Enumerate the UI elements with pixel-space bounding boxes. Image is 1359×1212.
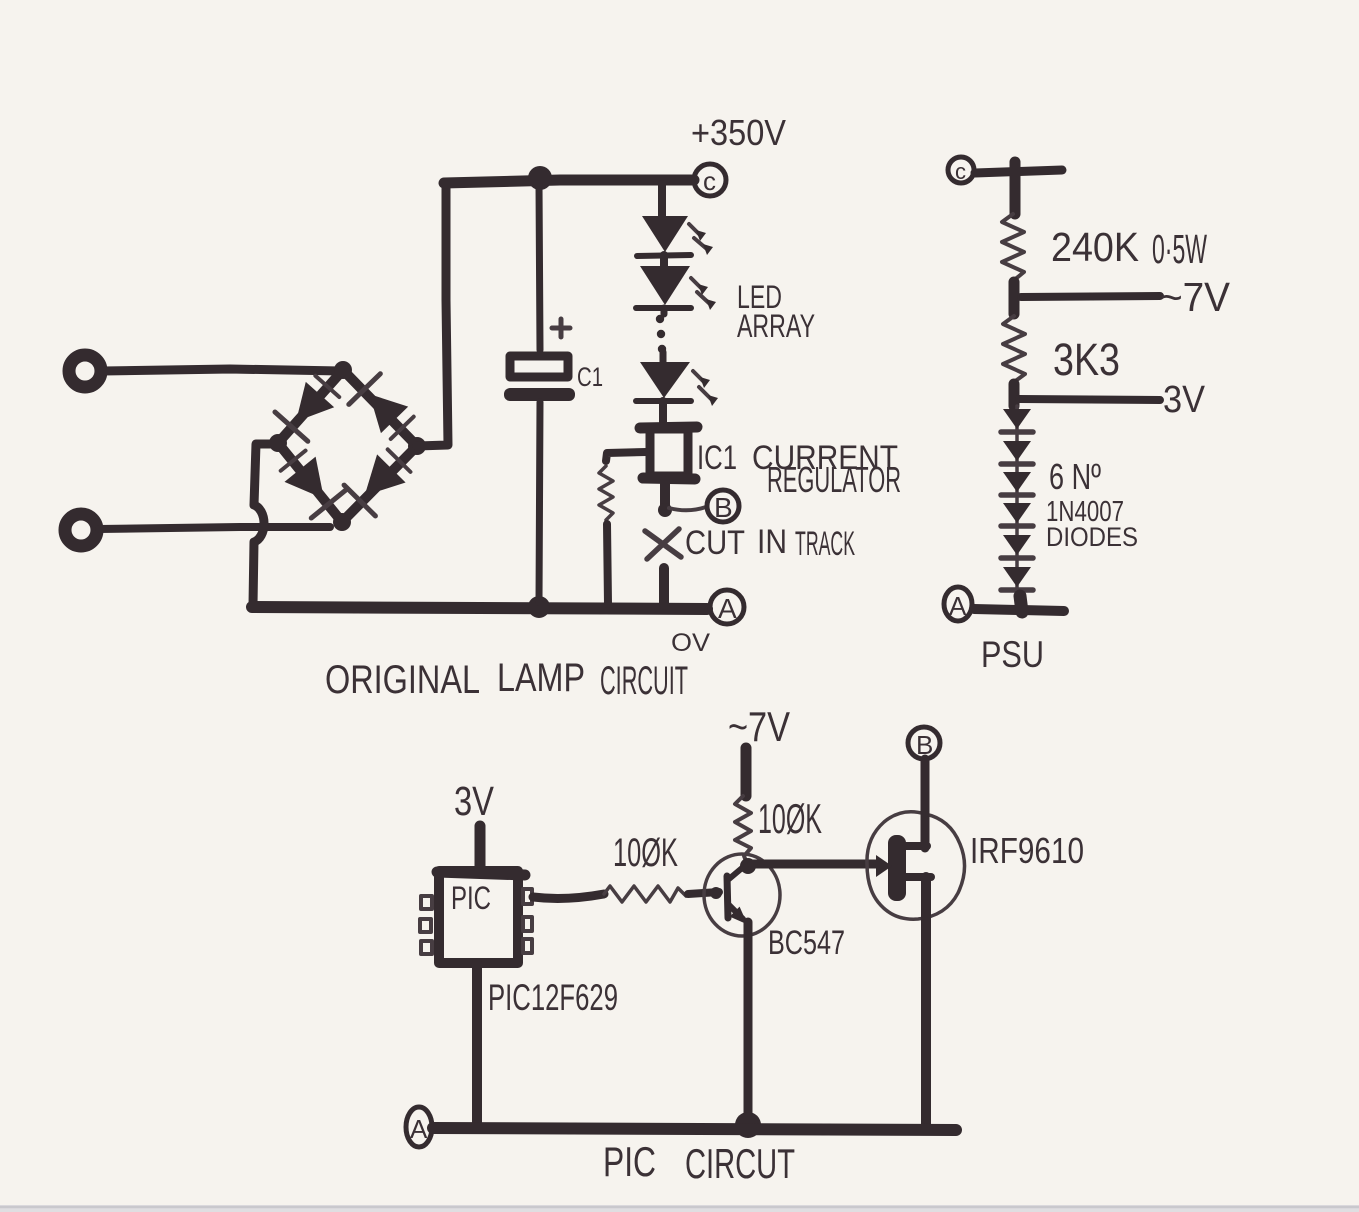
- label C1: [577, 362, 603, 392]
- polarity plus sign of C1: [552, 319, 570, 337]
- scan edge shadow: [0, 1205, 1359, 1212]
- svg-text:DIODES: DIODES: [1046, 522, 1138, 552]
- regulator IC1: [640, 427, 697, 479]
- node B lamp circuit: [707, 490, 739, 523]
- label IC1: [697, 439, 737, 477]
- svg-text:IRF9610: IRF9610: [970, 830, 1084, 871]
- svg-text:IN: IN: [757, 523, 787, 561]
- resistor R adj beside IC1: [599, 466, 613, 520]
- svg-text:+350V: +350V: [691, 112, 786, 153]
- LED D5: [637, 216, 713, 256]
- node C PSU: [948, 157, 974, 184]
- resistor 100K base: [604, 886, 686, 902]
- wire resistor to 0V rail: [607, 524, 608, 604]
- svg-text:10ØK: 10ØK: [758, 795, 822, 842]
- wire LED D5 to D6: [660, 255, 668, 267]
- svg-text:0·5W: 0·5W: [1152, 226, 1207, 272]
- transistor Q2 IRF9610: [867, 812, 965, 919]
- pin left 2: [420, 919, 431, 932]
- wire stub above LED D7: [660, 352, 667, 362]
- resistor 100K collector: [735, 796, 751, 861]
- pin right 1: [523, 889, 532, 904]
- svg-text:c: c: [955, 159, 966, 184]
- IC U1 PIC12F629: [420, 871, 532, 963]
- svg-text:B: B: [714, 492, 733, 523]
- bridge diode D4 bottom-right: [344, 445, 415, 516]
- label 100K collector: [758, 795, 822, 842]
- node A PIC: [406, 1107, 432, 1147]
- caption PIC CIRCUT: [603, 1138, 795, 1187]
- bridge rectifier BR1: [269, 361, 426, 531]
- svg-text:PSU: PSU: [981, 634, 1044, 675]
- wire resistor to Q1 base: [688, 887, 722, 899]
- junction bottom rail to C1: [528, 596, 550, 618]
- wire stub to node B: [669, 507, 706, 510]
- junction top rail to C1: [528, 166, 552, 190]
- diode chain 6x 1N4007: [1001, 406, 1033, 600]
- svg-text:10ØK: 10ØK: [613, 831, 678, 875]
- label IRF9610: [970, 830, 1084, 871]
- diode D11: [1001, 503, 1033, 526]
- node C lamp circuit: [694, 164, 726, 196]
- svg-text:PIC12F629: PIC12F629: [488, 977, 618, 1018]
- diode D12: [1001, 535, 1033, 558]
- label ~7V: [1160, 274, 1231, 320]
- wire PIC to base resistor: [533, 894, 604, 898]
- resistor 240K 0.5W: [1002, 214, 1024, 281]
- pin left 1: [421, 896, 432, 909]
- svg-text:~7V: ~7V: [1160, 274, 1231, 320]
- svg-text:3K3: 3K3: [1053, 334, 1120, 385]
- capacitor C1: [504, 356, 575, 401]
- wire J2 to bridge bottom corner: [99, 527, 330, 529]
- svg-text:240K: 240K: [1051, 224, 1139, 270]
- svg-text:A: A: [718, 593, 737, 624]
- label 0V: [671, 629, 710, 657]
- wire 7V stub: [741, 748, 752, 796]
- label PIC12F629: [488, 977, 618, 1018]
- svg-text:REGULATOR: REGULATOR: [767, 459, 901, 500]
- wire PIC to 0V rail: [472, 963, 482, 1127]
- wire IC1 output stub: [658, 481, 672, 517]
- svg-text:3V: 3V: [1163, 379, 1206, 421]
- svg-text:OV: OV: [671, 629, 710, 657]
- svg-text:C1: C1: [577, 362, 603, 392]
- diode D10: [1001, 472, 1033, 495]
- terminal J1 AC input top: [69, 355, 101, 387]
- wire 3V tap: [1019, 399, 1160, 400]
- label 100K base: [613, 831, 678, 875]
- svg-text:BC547: BC547: [768, 924, 845, 962]
- wire PSU bottom bar: [974, 596, 1064, 612]
- node B PIC: [908, 727, 940, 760]
- label CURRENT REGULATOR: [752, 439, 901, 500]
- svg-text:LAMP: LAMP: [497, 656, 585, 700]
- svg-text:IC1: IC1: [697, 439, 737, 477]
- bridge diode D3 bottom-left: [276, 447, 345, 518]
- label ~7V PIC supply: [728, 703, 790, 750]
- svg-text:3V: 3V: [454, 778, 495, 824]
- wire node B to Q2 drain: [921, 759, 930, 848]
- pin left 3: [421, 941, 432, 954]
- wire J1 to bridge top corner: [103, 369, 341, 371]
- svg-text:A: A: [410, 1114, 428, 1144]
- junction emitter to rail: [735, 1112, 761, 1138]
- svg-text:PIC: PIC: [451, 880, 491, 916]
- label 3V: [1163, 379, 1206, 421]
- wire +350V top rail: [444, 180, 694, 183]
- svg-text:TRACK: TRACK: [795, 525, 855, 563]
- wire 0V bottom rail PIC: [433, 1128, 956, 1130]
- bridge diode D2 top-right: [349, 374, 418, 443]
- svg-text:PIC: PIC: [603, 1138, 656, 1185]
- label 6 No 1N4007 DIODES: [1046, 456, 1138, 552]
- label 240K 0.5W: [1051, 224, 1207, 272]
- wire rail to LED string: [658, 184, 666, 218]
- wire LED D7 to IC1: [659, 401, 667, 424]
- wire Q2 source to 0V rail: [921, 877, 931, 1128]
- svg-text:~7V: ~7V: [728, 703, 790, 750]
- label 3K3: [1053, 334, 1120, 385]
- LED D7: [636, 362, 718, 406]
- dotted wire continuation of LED array: [656, 315, 666, 353]
- svg-text:ARRAY: ARRAY: [737, 308, 815, 344]
- svg-text:CIRCUT: CIRCUT: [685, 1140, 795, 1187]
- label CUT IN TRACK: [685, 523, 855, 563]
- svg-text:CIRCUIT: CIRCUIT: [600, 659, 688, 703]
- wire collector to Q2 gate: [752, 860, 878, 869]
- label LED ARRAY: [737, 279, 815, 344]
- junction 3V tap: [1009, 384, 1020, 406]
- wire bridge left corner down with hop over J2 wire: [253, 444, 278, 605]
- wire bridge right corner up to +350V rail: [417, 183, 448, 446]
- svg-text:ORIGINAL: ORIGINAL: [325, 658, 480, 702]
- caption PSU: [981, 634, 1044, 675]
- wire 3V to PIC: [475, 826, 486, 870]
- label BC547: [768, 924, 845, 962]
- pin right 2: [523, 917, 532, 931]
- wire 7V tap: [1021, 296, 1160, 297]
- pin right 3: [523, 939, 532, 953]
- wire C1 to bottom rail: [539, 402, 540, 602]
- junction collector node: [740, 858, 756, 874]
- diode D13: [1001, 567, 1033, 590]
- wire IC1 adj pin to resistor: [606, 452, 646, 461]
- svg-text:A: A: [949, 591, 967, 621]
- bridge diode D1 top-left: [275, 372, 344, 442]
- node A lamp circuit: [710, 590, 744, 624]
- terminal J2 AC input bottom: [65, 514, 97, 546]
- node A PSU: [944, 587, 972, 621]
- wire Q1 emitter to 0V rail: [744, 922, 753, 1124]
- wire LED D6 stub: [661, 308, 668, 314]
- LED D6: [636, 266, 716, 310]
- label 3V PIC supply: [454, 778, 495, 824]
- resistor 3K3: [1003, 316, 1025, 382]
- svg-text:CUT: CUT: [685, 524, 745, 562]
- svg-text:c: c: [703, 166, 716, 196]
- svg-text:6 Nº: 6 Nº: [1049, 456, 1101, 497]
- diode D8: [1001, 409, 1033, 432]
- diode D9: [1001, 441, 1033, 464]
- transistor Q1 BC547: [704, 854, 780, 936]
- caption ORIGINAL LAMP CIRCUIT: [325, 656, 688, 703]
- wire 0V bottom rail: [252, 607, 707, 609]
- wire rail to capacitor C1: [539, 184, 540, 350]
- wire stub above node A: [659, 568, 669, 605]
- label +350V: [691, 112, 786, 153]
- junction 7V tap: [1009, 282, 1020, 314]
- wire PSU top tee: [975, 162, 1062, 214]
- cut-in-track X mark: [645, 529, 681, 559]
